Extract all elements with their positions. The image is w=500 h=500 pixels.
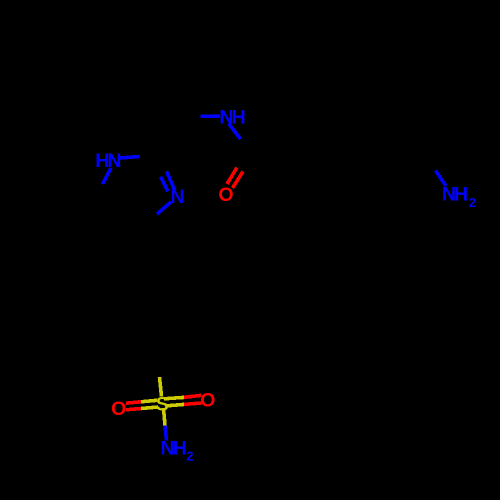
wire S=O left double bond lower line (yellow half) — [141, 407, 158, 409]
svg-text:2: 2 — [469, 195, 476, 210]
imidazoline ring: N1-H label HN — [95, 150, 121, 172]
wire S=O right double bond upper line (yellow half) — [164, 397, 184, 398]
wire S=O right double bond lower line (red half) — [184, 403, 202, 404]
svg-text:O: O — [218, 184, 233, 206]
sulfonamide NH2 label — [161, 437, 194, 463]
benzylamine NH2 label — [442, 184, 476, 210]
wire N3-C4 half-bond — [157, 202, 171, 214]
wire N1-C2 half-bond — [120, 157, 140, 159]
svg-text:O: O — [111, 398, 126, 420]
wire S-N half-bond (yellow half) — [164, 408, 166, 426]
wire CH2-NH2 half-bond — [435, 171, 446, 186]
wire S=O right double bond upper line (red half) — [184, 395, 201, 397]
wire C=O double bond half (line 2) — [233, 172, 244, 189]
svg-text:H: H — [173, 437, 187, 459]
wire C(aryl)-S half-bond — [160, 377, 162, 397]
svg-text:H: H — [232, 107, 246, 129]
wire S=O right double bond lower line (yellow half) — [167, 404, 184, 405]
wire C2=N3 double bond half (inner line) — [161, 177, 168, 192]
wire N1-C5 half-bond — [103, 168, 112, 184]
svg-text:O: O — [200, 389, 215, 411]
wire NH-C(=O) half-bond — [229, 124, 241, 139]
wire C=O double bond half (line 1) — [227, 168, 237, 185]
svg-text:2: 2 — [186, 449, 193, 464]
wire C2=N3 double bond half (outer line) — [167, 171, 175, 190]
wire CH2-NH half-bond — [201, 115, 220, 119]
svg-text:H: H — [454, 184, 468, 206]
wire S=O left double bond lower line (red half) — [126, 409, 141, 410]
wire S=O left double bond upper line (red half) — [126, 402, 141, 403]
wire S-N half-bond (blue half) — [165, 426, 167, 441]
amide N-H label NH — [219, 107, 245, 129]
wire S=O left double bond upper line (yellow half) — [141, 400, 157, 402]
